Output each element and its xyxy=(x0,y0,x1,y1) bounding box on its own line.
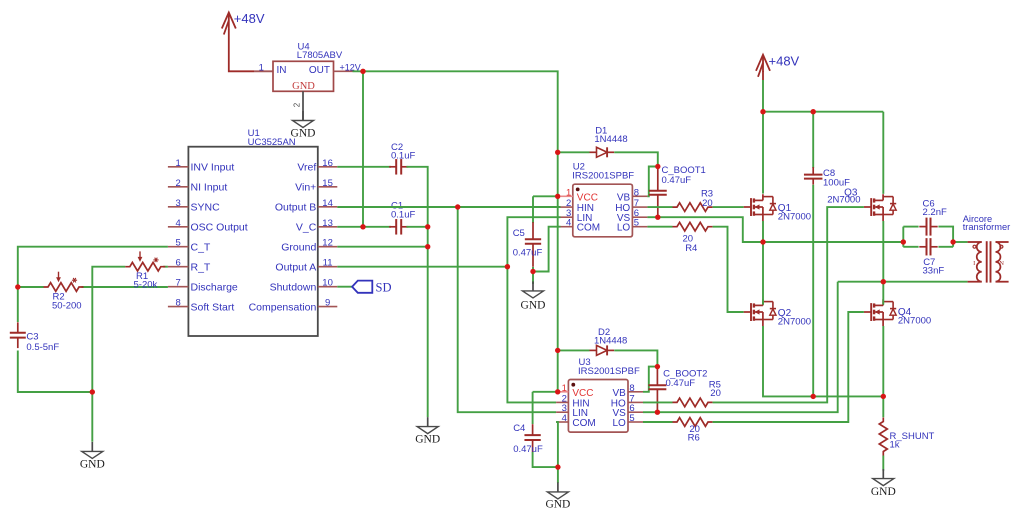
svg-text:5: 5 xyxy=(176,238,181,249)
svg-text:GND: GND xyxy=(521,299,546,311)
capacitor C2 0.1uF xyxy=(389,142,415,175)
wire U3 VB up xyxy=(643,367,657,392)
svg-text:C_T: C_T xyxy=(191,242,211,254)
transformer T1 aircore xyxy=(968,241,1009,282)
wire U3 LO to R6 xyxy=(643,421,673,423)
wire Q1 drain xyxy=(762,112,764,194)
svg-text:3: 3 xyxy=(176,198,181,209)
gate driver U3 IRS2001SPBF xyxy=(556,357,643,432)
wire C8 bottom to shunt rail xyxy=(812,185,814,397)
svg-text:12: 12 xyxy=(322,238,333,249)
capacitor C8 100uF xyxy=(804,167,850,188)
svg-text:0.47uF: 0.47uF xyxy=(513,247,543,258)
capacitor C7 33nF xyxy=(919,238,944,276)
wire right node to transformer bottom xyxy=(838,281,968,283)
svg-text:Ground: Ground xyxy=(281,242,316,254)
svg-text:GND: GND xyxy=(415,433,440,445)
wire Q2 source to shunt rail xyxy=(763,326,883,396)
svg-text:2: 2 xyxy=(176,178,181,189)
svg-text:INV Input: INV Input xyxy=(191,162,235,174)
svg-text:Vin+: Vin+ xyxy=(295,182,316,194)
wire U3 COM down xyxy=(556,422,558,483)
ground under U4 xyxy=(291,111,316,140)
wire C6/C7 left branch xyxy=(903,227,918,247)
wire Output B net xyxy=(337,207,560,412)
junction C5-COM-GND xyxy=(530,269,535,274)
junction C8 bottom xyxy=(811,394,816,399)
wire +12V rail to D1/D2/U2/U3 VCC xyxy=(353,71,558,392)
junction D2 anode xyxy=(555,348,560,353)
svg-text:GND: GND xyxy=(292,81,315,92)
svg-text:2N7000: 2N7000 xyxy=(778,316,811,327)
wire R3 to Q1 gate xyxy=(713,206,744,208)
svg-text:15: 15 xyxy=(322,178,333,189)
resistor R5 20 xyxy=(673,380,721,407)
svg-text:OSC Output: OSC Output xyxy=(191,222,248,234)
hierarchical label SD xyxy=(337,281,391,295)
transistor Q4 2N7000 xyxy=(864,299,931,326)
svg-text:1N4448: 1N4448 xyxy=(594,134,627,145)
U1 left pins 1-8 xyxy=(168,158,248,314)
svg-text:33nF: 33nF xyxy=(923,265,945,276)
svg-text:4: 4 xyxy=(562,413,567,424)
wire D1 cathode to C_BOOT1 xyxy=(614,152,658,166)
svg-text:10: 10 xyxy=(322,278,333,289)
capacitor C5 0.47uF xyxy=(513,222,543,267)
junction C_BOOT2 top xyxy=(655,364,660,369)
svg-text:IN: IN xyxy=(277,65,287,76)
svg-text:0.1uF: 0.1uF xyxy=(391,209,415,220)
junction U3 VCC xyxy=(555,389,560,394)
junction right switch node xyxy=(881,279,886,284)
svg-text:16: 16 xyxy=(322,158,333,169)
svg-text:4: 4 xyxy=(566,218,571,229)
wire C6/C7 right branch xyxy=(938,227,967,247)
svg-text:N: N xyxy=(999,260,1004,267)
svg-text:2: 2 xyxy=(293,102,302,107)
svg-text:C4: C4 xyxy=(513,423,525,434)
svg-text:transformer: transformer xyxy=(963,222,1011,232)
regulator U4 L7805ABV xyxy=(273,42,343,92)
svg-text:IRS2001SPBF: IRS2001SPBF xyxy=(572,171,634,182)
wire Q4 source xyxy=(882,326,884,417)
svg-text:14: 14 xyxy=(322,198,333,209)
junction C_BOOT2 bottom / U3 VS xyxy=(655,410,660,415)
svg-text:9: 9 xyxy=(325,298,330,309)
diode D1 1N4448 xyxy=(590,126,628,158)
transistor Q1 2N7000 xyxy=(744,194,811,222)
junction mid rail Q1 xyxy=(760,239,765,244)
op-amp U1 UC3525AN body xyxy=(188,128,317,336)
ground below gnd column xyxy=(415,417,440,445)
wire C1 right xyxy=(406,226,427,228)
wire U2 COM down xyxy=(533,227,561,272)
pin 1 of U4 xyxy=(259,62,264,73)
wire Q1 source to mid rail xyxy=(762,221,764,242)
pin 3 of U4 OUT stub xyxy=(334,70,353,72)
resistor R_SHUNT 1k xyxy=(879,418,934,456)
svg-text:Compensation: Compensation xyxy=(249,301,317,313)
wire C3 bottom to GND rail xyxy=(18,351,93,393)
svg-text:7: 7 xyxy=(176,278,181,289)
svg-text:VCC: VCC xyxy=(572,388,593,399)
junction +12V at U4 OUT xyxy=(360,69,365,74)
svg-text:Output A: Output A xyxy=(275,262,316,274)
pin 2 of U4 (GND) xyxy=(293,91,304,120)
junction D1 anode xyxy=(555,150,560,155)
wire +48V to U4 IN xyxy=(229,29,273,71)
svg-text:LO: LO xyxy=(617,223,631,234)
svg-text:8: 8 xyxy=(176,298,181,309)
svg-text:VB: VB xyxy=(612,388,626,399)
svg-text:Discharge: Discharge xyxy=(191,282,238,294)
junction C4-COM-GND xyxy=(555,464,560,469)
wire C8 top xyxy=(812,112,814,168)
wire U2 LO to R4 xyxy=(647,226,672,228)
wire +12V branch down to V_C xyxy=(362,71,364,227)
svg-text:GND: GND xyxy=(871,486,896,498)
wire R6 to Q4 gate xyxy=(713,312,864,422)
gate driver U2 IRS2001SPBF xyxy=(561,161,648,236)
wire Q4 drain xyxy=(882,282,884,305)
ground bottom-left xyxy=(80,442,105,471)
svg-text:0.5-5nF: 0.5-5nF xyxy=(26,342,59,353)
svg-text:R_T: R_T xyxy=(191,262,211,274)
wire C5 bottom junction xyxy=(532,267,534,284)
svg-text:VCC: VCC xyxy=(577,192,598,203)
junction C1-gnd column xyxy=(425,224,430,229)
wire +48V bus xyxy=(763,80,883,112)
svg-text:13: 13 xyxy=(322,218,333,229)
svg-text:UC3525AN: UC3525AN xyxy=(248,137,296,148)
diode D2 1N4448 xyxy=(590,327,628,356)
wire R4 to Q2 gate xyxy=(713,227,744,312)
svg-text:GND: GND xyxy=(545,498,570,510)
wire Q2 drain xyxy=(762,242,764,305)
power flag +48V (right) xyxy=(756,54,800,81)
wire Q3 drain xyxy=(882,112,884,194)
svg-text:LO: LO xyxy=(612,418,626,429)
svg-text:Vref: Vref xyxy=(297,162,316,174)
capacitor C4 0.47uF xyxy=(513,423,543,455)
svg-text:1: 1 xyxy=(259,62,264,73)
wire R_SHUNT to ground xyxy=(882,456,884,471)
svg-text:2.2nF: 2.2nF xyxy=(923,207,947,218)
resistor R3 20 xyxy=(673,189,714,212)
svg-text:0.47uF: 0.47uF xyxy=(662,175,692,186)
wire U2 VS to mid rail xyxy=(647,217,903,242)
resistor R4 20 xyxy=(673,222,713,253)
svg-text:COM: COM xyxy=(577,223,600,234)
svg-text:SD: SD xyxy=(376,281,392,295)
svg-text:11: 11 xyxy=(323,258,333,269)
svg-text:R6: R6 xyxy=(688,433,700,444)
svg-text:5: 5 xyxy=(629,413,634,424)
svg-text:+48V: +48V xyxy=(234,11,265,26)
label +12V xyxy=(340,62,361,72)
svg-text:1: 1 xyxy=(176,158,181,169)
capacitor C1 0.1uF xyxy=(389,201,415,235)
svg-text:50-200: 50-200 xyxy=(52,300,82,311)
svg-text:NI Input: NI Input xyxy=(191,182,228,194)
svg-text:0.1uF: 0.1uF xyxy=(391,151,415,162)
junction +48V C8 xyxy=(811,109,816,114)
svg-text:IRS2001SPBF: IRS2001SPBF xyxy=(578,366,640,377)
svg-text:8: 8 xyxy=(634,187,639,198)
svg-text:20: 20 xyxy=(702,198,713,209)
ground under C4 xyxy=(545,482,570,510)
svg-text:Output B: Output B xyxy=(275,202,316,214)
resistor R6 20 xyxy=(673,418,713,444)
svg-text:6: 6 xyxy=(176,258,181,269)
power flag +48V (left) xyxy=(222,11,265,35)
svg-text:2N7000: 2N7000 xyxy=(898,315,931,326)
svg-text:Soft Start: Soft Start xyxy=(191,301,235,313)
svg-text:0.47uF: 0.47uF xyxy=(666,378,696,389)
junction Ground-gnd column xyxy=(425,244,430,249)
junction U2 VCC xyxy=(555,194,560,199)
junction +48V left xyxy=(760,109,765,114)
capacitor C6 2.2nF xyxy=(919,198,947,235)
svg-text:2N7000: 2N7000 xyxy=(778,211,811,222)
svg-text:V_C: V_C xyxy=(296,222,317,234)
capacitor C_BOOT1 0.47uF xyxy=(649,165,706,217)
svg-text:+48V: +48V xyxy=(769,54,800,69)
junction Output B xyxy=(455,204,460,209)
junction C_BOOT1 bottom / VS xyxy=(655,215,660,220)
wire U3 VCC to C4 xyxy=(533,392,558,424)
wire R5 to Q3 gate xyxy=(713,207,864,402)
svg-text:5-20k: 5-20k xyxy=(134,280,158,291)
wire Output A net xyxy=(337,217,560,402)
svg-text:1: 1 xyxy=(562,383,567,394)
svg-text:R4: R4 xyxy=(685,243,697,254)
resistor R1 5-20k (pot) xyxy=(125,251,165,290)
resistor R2 50-200 (pot) xyxy=(44,272,84,312)
junction R2 left xyxy=(15,284,20,289)
wire C_T net xyxy=(18,247,168,322)
wire C4 bottom to GND xyxy=(533,452,558,467)
wire C2 right down the gnd column xyxy=(406,167,427,417)
svg-text:SYNC: SYNC xyxy=(191,202,221,214)
ground under R_SHUNT xyxy=(871,469,896,498)
wire Vref to C2 xyxy=(337,166,391,168)
capacitor C_BOOT2 0.47uF xyxy=(648,367,707,412)
svg-text:1k: 1k xyxy=(890,440,900,451)
wire V_C to C1 xyxy=(337,226,391,228)
svg-text:5: 5 xyxy=(634,218,639,229)
wire Q3 source to right node xyxy=(882,221,884,282)
svg-text:2N7000: 2N7000 xyxy=(827,194,860,205)
wire U2 VB up xyxy=(647,167,657,197)
svg-text:C3: C3 xyxy=(26,331,38,342)
wire U2 VCC to C5 top xyxy=(533,196,558,223)
U1 right pins 16-9 xyxy=(249,158,338,314)
svg-text:L7805ABV: L7805ABV xyxy=(297,50,343,61)
junction bottom-left xyxy=(90,389,95,394)
svg-text:0.47uF: 0.47uF xyxy=(513,444,543,455)
svg-text:C5: C5 xyxy=(513,228,525,239)
junction C6C7 left xyxy=(901,239,906,244)
wire U2 HO to R3 xyxy=(647,206,672,208)
svg-text:OUT: OUT xyxy=(309,65,330,76)
junction Q4 source / R_SHUNT xyxy=(881,394,886,399)
junction V_C +12V xyxy=(360,224,365,229)
wire U3 HO to R5 xyxy=(643,401,673,403)
svg-text:1N4448: 1N4448 xyxy=(594,335,627,346)
wire D2 cathode to C_BOOT2 xyxy=(614,350,657,366)
wire R_T to R1 xyxy=(92,267,168,442)
svg-text:20: 20 xyxy=(710,388,721,399)
wire +12V to D2 xyxy=(558,349,590,351)
wire +12V to D1 xyxy=(558,151,590,153)
transistor Q2 2N7000 xyxy=(744,299,811,327)
junction Output A xyxy=(505,264,510,269)
junction C6C7 right xyxy=(950,239,955,244)
svg-text:COM: COM xyxy=(572,418,595,429)
wire Discharge to R2 xyxy=(18,286,168,288)
svg-text:GND: GND xyxy=(80,459,105,471)
ground under C5 xyxy=(521,281,546,311)
wire Ground pin to gnd column xyxy=(337,246,427,248)
label Aircore transformer xyxy=(963,214,1011,232)
svg-text:4: 4 xyxy=(176,218,181,229)
transistor Q3 2N7000 xyxy=(827,187,896,221)
svg-text:I: I xyxy=(973,260,975,267)
capacitor C3 0.5-5nF xyxy=(10,322,60,353)
svg-text:8: 8 xyxy=(629,383,634,394)
junction C_BOOT1 top xyxy=(655,164,660,169)
svg-text:1: 1 xyxy=(566,187,571,198)
svg-text:Shutdown: Shutdown xyxy=(270,282,317,294)
wire U3 VS to right node xyxy=(643,282,838,413)
svg-text:VB: VB xyxy=(617,192,631,203)
